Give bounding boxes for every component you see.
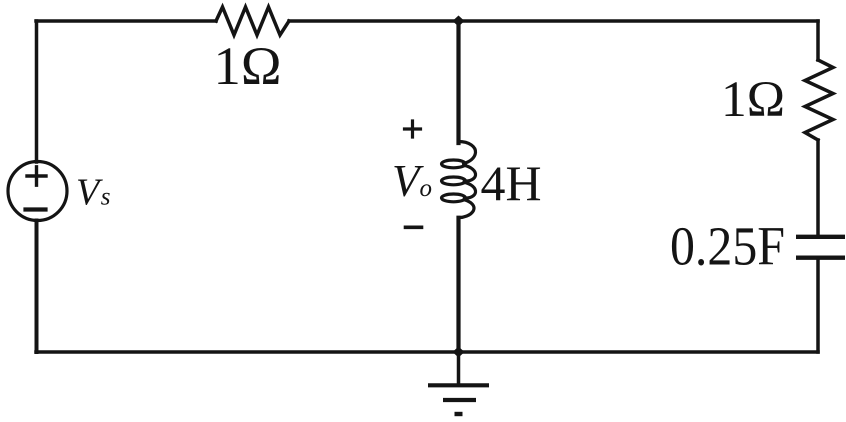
label + (Vo polarity): [405, 121, 421, 137]
wire: bottom horizontal segment (node B to bottom-right corner): [462, 350, 818, 354]
label - (Vo polarity): [406, 226, 422, 230]
node A (junction dot): [453, 16, 465, 27]
ground symbol (stub): [457, 352, 461, 384]
capacitor C1 top plate: [796, 235, 845, 239]
resistor R2 (1 ohm, right): [805, 60, 833, 140]
svg-text:1Ω: 1Ω: [214, 36, 282, 96]
wire: left vertical segment (Vs to bottom-left corner): [35, 221, 39, 353]
wire: left vertical segment (top-left corner to Vs): [35, 21, 39, 162]
svg-text:Vo: Vo: [392, 156, 432, 206]
inductor L1 (4H coil): [442, 142, 476, 218]
node B (junction dot): [453, 347, 465, 358]
wire: top horizontal segment (node A to top-right corner): [462, 19, 818, 23]
voltage source Vs minus sign: [26, 207, 46, 211]
svg-text:4H: 4H: [481, 155, 542, 211]
voltage source Vs plus sign: [27, 167, 46, 185]
wire: top horizontal segment (R1 to node A): [289, 19, 455, 23]
voltage source Vs (circle): [8, 162, 67, 221]
svg-text:0.25F: 0.25F: [670, 216, 785, 277]
ground symbol bar 2: [443, 398, 476, 402]
wire: middle vertical segment (node A to inductor L1): [456, 21, 460, 143]
svg-text:Vs: Vs: [76, 172, 110, 214]
resistor R1 (1 ohm, top): [216, 7, 289, 35]
ground symbol bar 3: [455, 412, 463, 416]
svg-text:1Ω: 1Ω: [721, 72, 785, 128]
wire: bottom horizontal segment (bottom-left corner to node B): [36, 350, 455, 354]
ground symbol bar 1: [428, 383, 489, 387]
wire: right vertical segment (corner to R2): [816, 21, 820, 60]
capacitor C1 bottom plate: [796, 256, 845, 260]
wire: middle vertical segment (L1 to node B): [456, 218, 460, 352]
wire: top-left horizontal segment (left corner to R1): [36, 19, 216, 23]
wire: right vertical segment (C1 to bottom-right corner): [816, 260, 820, 353]
wire: right vertical segment (R2 to capacitor C1): [816, 140, 820, 235]
